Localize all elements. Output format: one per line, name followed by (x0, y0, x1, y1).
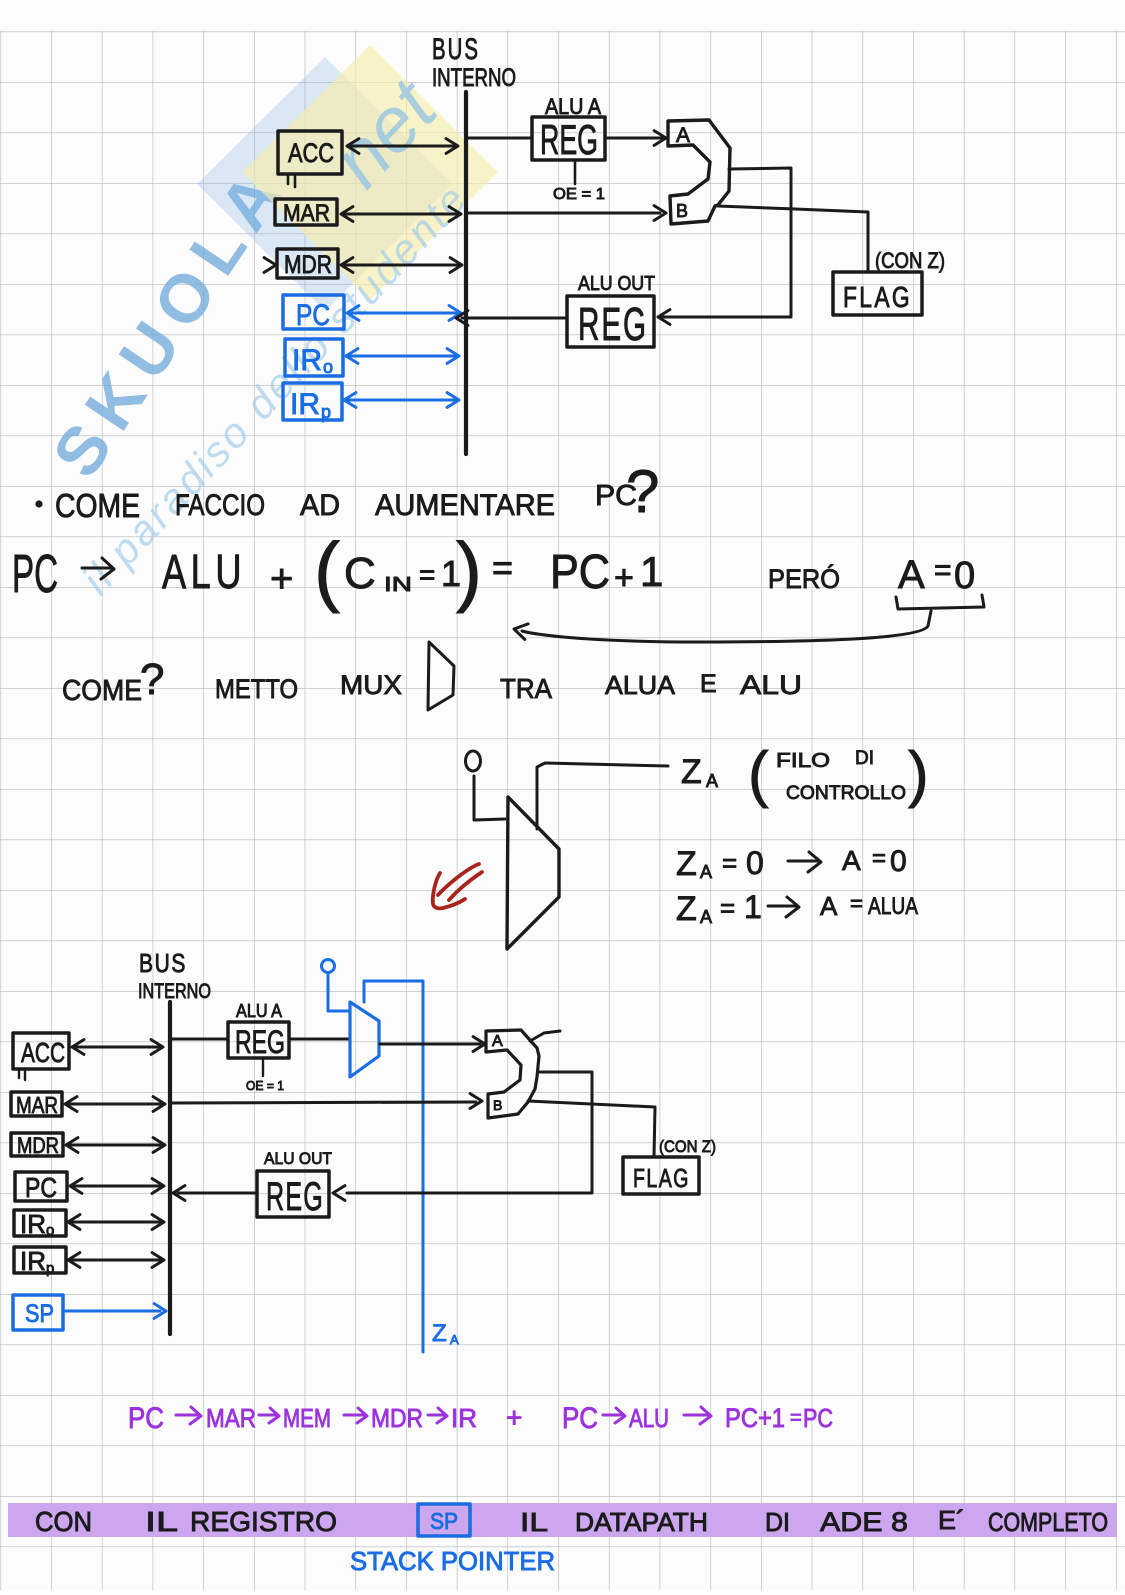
node BUS INTERNO label (top) (432, 33, 516, 92)
svg-text:ALUA: ALUA (605, 670, 676, 700)
svg-text:CON: CON (35, 1506, 92, 1537)
register SP reference box (blue) (418, 1504, 470, 1536)
svg-text:DI: DI (855, 748, 874, 769)
svg-text:ALU: ALU (740, 670, 802, 700)
register PC (bottom) (15, 1172, 67, 1203)
wire ALU out REG to bus (bottom) (173, 1186, 256, 1201)
ALU hat wire (bottom) (530, 1031, 560, 1041)
wire PC-bus double arrow (blue) (347, 306, 461, 321)
svg-text:?: ? (626, 458, 659, 525)
svg-text:o: o (323, 357, 333, 377)
svg-text:0: 0 (954, 555, 975, 597)
svg-text:): ) (908, 740, 929, 809)
svg-text:A: A (700, 862, 712, 882)
mux (hand drawn, big) (507, 797, 559, 949)
register IRo (top, blue) (285, 339, 343, 377)
svg-text:?: ? (140, 655, 164, 704)
register ACC (bottom) (13, 1033, 69, 1069)
svg-text:=: = (872, 845, 886, 872)
formula: PC -> ALU + (Cin=1) = PC+1 PERO A=0 (12, 544, 58, 604)
svg-text:DI: DI (765, 1507, 790, 1537)
register ALU out REG (bottom) (257, 1149, 332, 1219)
svg-text:C: C (344, 549, 376, 598)
svg-text:BUS: BUS (432, 33, 480, 66)
svg-text:COME: COME (55, 487, 140, 524)
register FLAG (bottom) (623, 1137, 716, 1194)
note (FILO DI CONTROLLO) (748, 740, 929, 809)
svg-text:PC: PC (12, 544, 58, 604)
svg-text:CONTROLLO: CONTROLLO (786, 783, 906, 804)
svg-text:OE = 1: OE = 1 (553, 186, 605, 203)
svg-text:PC: PC (296, 299, 330, 332)
wire ACC-bus double arrow (bottom) (72, 1040, 163, 1055)
wire PC-bus double arrow (bottom) (70, 1179, 164, 1194)
register ALU A REG (bottom) (228, 1001, 289, 1060)
svg-text:REG: REG (578, 298, 648, 350)
wire 0 to MUX (474, 776, 505, 820)
register ACC (top) (278, 131, 342, 174)
svg-text:ALU A: ALU A (236, 1001, 282, 1021)
svg-text:MUX: MUX (340, 670, 402, 700)
wire MAR-bus double arrow (bottom) (65, 1097, 165, 1112)
wire ALU out REG to bus (456, 311, 566, 326)
svg-text:Z: Z (676, 890, 697, 928)
MDR left input arrowhead (264, 258, 276, 273)
svg-text:REG: REG (540, 116, 598, 163)
svg-text:=: = (419, 559, 435, 590)
wire ACC-bus double arrow (347, 139, 458, 154)
op-amp style ALU U1 (top) (668, 120, 730, 224)
svg-text:=: = (492, 547, 513, 588)
svg-text:ADE 8: ADE 8 (820, 1507, 908, 1537)
wire IRo-bus double arrow (blue) (346, 349, 459, 364)
register IRo (bottom) (14, 1209, 66, 1239)
register PC (top, blue) (283, 295, 344, 332)
svg-text:A: A (706, 771, 718, 791)
highlight bar (purple marker) (8, 1503, 1117, 1537)
constant 0 input (466, 751, 481, 771)
svg-text:A: A (450, 1332, 459, 1347)
red annotation arrow (433, 864, 482, 908)
wire MUX select to ZA (537, 763, 668, 829)
svg-text:PC: PC (803, 1403, 833, 1433)
register ALU A REG (top) (532, 94, 605, 163)
svg-text:(: ( (314, 526, 340, 614)
register IRp (bottom) (14, 1246, 66, 1277)
svg-text:ALU OUT: ALU OUT (578, 273, 655, 295)
note ZA=1 -> A=ALUA (676, 889, 918, 928)
svg-text:IR: IR (20, 1209, 46, 1239)
node BUS INTERNO label (bottom) (138, 948, 211, 1003)
register ALU out REG (top) (567, 273, 655, 350)
svg-text:IR: IR (20, 1246, 46, 1276)
register MAR (bottom) (11, 1092, 62, 1118)
svg-text:o: o (46, 1222, 54, 1239)
underline bracket below A=0 (896, 595, 984, 609)
svg-text:A: A (676, 124, 690, 147)
note line: COME FACCIO AD AUMENTARE PC? (35, 458, 659, 525)
svg-text:TRA: TRA (500, 673, 552, 704)
svg-text:PC: PC (550, 546, 610, 599)
register FLAG (top) (833, 248, 945, 315)
svg-text:E´: E´ (938, 1505, 965, 1535)
svg-text:ALUA: ALUA (868, 893, 918, 920)
svg-text:FLAG: FLAG (633, 1163, 690, 1193)
svg-text:IR: IR (451, 1403, 477, 1433)
constant 0 (bottom, blue) (322, 960, 335, 973)
svg-text:ALU OUT: ALU OUT (264, 1149, 332, 1168)
svg-text:+: + (270, 557, 293, 601)
register MDR (top) (277, 249, 338, 279)
wire ALU B to FLAG (bottom) (528, 1101, 655, 1157)
svg-text:BUS: BUS (139, 948, 187, 978)
svg-text:Z: Z (432, 1320, 447, 1347)
svg-text:OE = 1: OE = 1 (246, 1078, 284, 1093)
OE=1 stem and label (bottom) (246, 1058, 284, 1093)
svg-text:ACC: ACC (288, 138, 334, 168)
wire bus to ALU A REG (468, 137, 531, 140)
svg-text:A: A (820, 891, 838, 921)
svg-text:MDR: MDR (17, 1133, 59, 1158)
svg-text:STACK POINTER: STACK POINTER (350, 1546, 555, 1576)
svg-text:PC: PC (562, 1402, 598, 1435)
wire bus to ALU A REG (bottom) (172, 1038, 227, 1041)
register SP (bottom, blue) (13, 1295, 63, 1330)
svg-text:E: E (700, 670, 717, 698)
svg-text:PC: PC (128, 1402, 164, 1435)
wire mux to ALU input A (bottom) (380, 1037, 485, 1052)
svg-text:ALU: ALU (162, 546, 246, 599)
svg-text:IR: IR (290, 388, 320, 421)
highlighted sentence (35, 1505, 1108, 1537)
register MAR (top) (275, 199, 337, 227)
wire 0 to mux (blue) (328, 973, 349, 1011)
svg-text:ALU: ALU (629, 1403, 669, 1433)
svg-text:DATAPATH: DATAPATH (575, 1507, 708, 1537)
formula PC->MAR->MEM->MDR->IR + PC->ALU->PC+1=PC (purple) (128, 1402, 833, 1435)
watermark skuola.net logo (38, 45, 498, 603)
svg-text:IN: IN (384, 574, 412, 596)
svg-text:MDR: MDR (371, 1403, 423, 1433)
note STACK POINTER (blue) (350, 1546, 555, 1576)
ACC ticks (bottom) (19, 1070, 25, 1080)
wire ALU B corner to FLAG (718, 206, 868, 271)
svg-text:): ) (456, 526, 482, 614)
svg-text:COMPLETO: COMPLETO (988, 1507, 1108, 1537)
svg-text:B: B (493, 1097, 502, 1113)
svg-text:MAR: MAR (16, 1092, 58, 1118)
svg-text:Z: Z (681, 753, 702, 791)
svg-text:Z: Z (676, 845, 697, 883)
bus internal vertical line (top) (464, 92, 468, 454)
svg-text:0: 0 (890, 845, 907, 878)
register IRp (top, blue) (283, 383, 342, 422)
node ZA label (681, 753, 718, 791)
svg-text:B: B (676, 201, 688, 221)
wire IRp-bus double arrow (bottom) (68, 1253, 164, 1268)
wire ALU output to ALU out REG (658, 168, 791, 324)
svg-text:METTO: METTO (215, 674, 298, 704)
wire IRp-bus double arrow (blue) (344, 393, 459, 408)
ALU A REG OE=1 stem and label (553, 160, 605, 203)
svg-text:IL: IL (520, 1507, 548, 1537)
node ZA label (bottom, blue) (432, 1320, 459, 1347)
note line: COME? METTO MUX tra ALUA e ALU (62, 655, 402, 707)
svg-text:INTERNO: INTERNO (138, 980, 211, 1003)
wire SP to bus (blue) (64, 1304, 166, 1319)
svg-text:COME: COME (62, 675, 142, 707)
svg-text:FACCIO: FACCIO (175, 489, 265, 522)
wire ALU A REG to MUX (290, 1038, 349, 1041)
svg-text:1: 1 (640, 548, 663, 595)
svg-text:MAR: MAR (206, 1403, 256, 1433)
svg-text:MEM: MEM (283, 1403, 331, 1433)
wire MDR-bus double arrow (341, 258, 462, 273)
svg-text:IL: IL (145, 1506, 178, 1537)
svg-text:1: 1 (744, 889, 762, 925)
wire MDR-bus double arrow (bottom) (66, 1138, 165, 1153)
wire IRo-bus double arrow (bottom) (68, 1215, 164, 1230)
svg-text:A: A (700, 907, 712, 927)
svg-text:+: + (614, 559, 634, 597)
svg-text:p: p (46, 1260, 54, 1277)
svg-text:MAR: MAR (283, 200, 330, 227)
long curved arrow from A=0 to MUX mention (514, 611, 931, 642)
note ZA=0 -> A=0 (676, 845, 907, 883)
svg-text:+: + (506, 1402, 522, 1433)
svg-text:AD: AD (300, 489, 340, 522)
svg-text:=: = (934, 554, 952, 587)
svg-text:FLAG: FLAG (843, 282, 912, 314)
small mux symbol inline (428, 642, 454, 710)
svg-text:(CON Z): (CON Z) (875, 248, 945, 273)
svg-text:=: = (850, 891, 863, 916)
op-amp style ALU U2 (bottom) (486, 1030, 539, 1118)
svg-text:(: ( (748, 740, 769, 809)
svg-text:REGISTRO: REGISTRO (190, 1506, 337, 1537)
svg-text:p: p (321, 402, 331, 422)
svg-text:SP: SP (25, 1300, 54, 1328)
svg-text:AUMENTARE: AUMENTARE (375, 489, 555, 522)
svg-text:FILO: FILO (776, 750, 830, 772)
svg-text:A: A (842, 845, 861, 876)
svg-text:SP: SP (430, 1508, 458, 1534)
register MDR (bottom) (11, 1133, 63, 1158)
wire mux select ZA vertical (blue) (364, 981, 423, 1352)
svg-text:IR: IR (292, 344, 322, 377)
wire bus to ALU input B (bottom) (172, 1094, 482, 1109)
svg-text:(CON Z): (CON Z) (659, 1137, 716, 1156)
svg-text:A: A (492, 1033, 503, 1050)
svg-text:MDR: MDR (284, 251, 332, 279)
svg-text:PERÓ: PERÓ (768, 563, 840, 594)
svg-text:=: = (722, 848, 737, 878)
svg-text:PC+1: PC+1 (725, 1403, 785, 1433)
ACC ground ticks (288, 175, 295, 187)
bus internal vertical line (bottom) (168, 1002, 172, 1334)
svg-text:REG: REG (235, 1024, 285, 1060)
svg-text:=: = (720, 893, 735, 923)
wire MAR-bus double arrow (341, 207, 461, 222)
svg-text:ACC: ACC (21, 1037, 65, 1068)
svg-text:INTERNO: INTERNO (432, 64, 516, 92)
svg-text:REG: REG (266, 1175, 324, 1219)
wire ALU A REG to ALU input A (606, 131, 666, 146)
svg-text:PC: PC (25, 1172, 57, 1203)
wire bus to ALU input B (468, 206, 666, 221)
svg-text:0: 0 (746, 845, 764, 881)
svg-text:A: A (898, 553, 925, 597)
svg-text:=: = (790, 1407, 802, 1429)
mux ZA (bottom, blue) (350, 1002, 379, 1077)
wire ALU output down to ALU out REG (bottom) (333, 1072, 592, 1200)
